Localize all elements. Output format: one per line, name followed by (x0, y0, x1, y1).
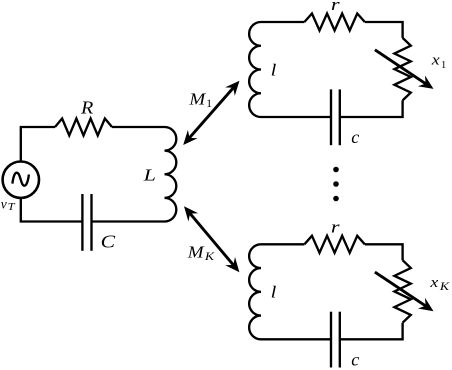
wire top of loop 1 (261, 21, 304, 23)
resistor r (loop K) (304, 236, 364, 253)
secondary loop K: inductor l (249, 244, 261, 339)
svg-text:l: l (271, 283, 277, 302)
label xK (429, 273, 449, 292)
wire bottom of loop K (261, 338, 331, 340)
wire bottom of primary loop (92, 220, 165, 222)
wire top-right of loop K (365, 244, 403, 260)
resistor r (loop 1) (304, 14, 364, 31)
svg-text:c: c (351, 127, 359, 147)
label vT (1, 197, 16, 213)
secondary loop 1: inductor l (249, 22, 261, 117)
variable reactance x1 arrow (375, 50, 434, 89)
capacitor C (82, 194, 91, 251)
wire from R to inductor L (112, 126, 165, 128)
mutual coupling arrow M1 (183, 81, 239, 145)
svg-text:T: T (8, 202, 16, 213)
svg-text:l: l (271, 61, 277, 80)
wire bottom-right of loop K (340, 323, 403, 340)
svg-text:K: K (439, 280, 450, 293)
svg-text:x: x (431, 51, 441, 68)
wire left-bottom segment below source (21, 198, 83, 222)
voltage source sine symbol (12, 173, 29, 186)
svg-text:L: L (142, 166, 155, 185)
svg-text:1: 1 (441, 60, 446, 71)
svg-text:r: r (331, 0, 340, 14)
capacitor c (loop 1) (331, 89, 340, 145)
svg-text:v: v (1, 197, 7, 212)
svg-text:1: 1 (206, 98, 212, 110)
vertical ellipsis dots (333, 167, 339, 202)
svg-text:x: x (429, 273, 439, 290)
resistor R (55, 119, 112, 136)
svg-text:r: r (331, 219, 340, 237)
variable reactance xK zigzag (394, 260, 410, 323)
voltage source vT circle (3, 162, 39, 198)
wire top-right of loop 1 (365, 22, 403, 38)
svg-text:R: R (80, 99, 94, 118)
label MK (187, 243, 215, 263)
capacitor c (loop K) (331, 312, 340, 368)
inductor L (165, 127, 177, 222)
svg-text:c: c (351, 349, 359, 369)
wire bottom-right of loop 1 (340, 100, 403, 117)
svg-text:M: M (188, 90, 206, 109)
variable reactance x1 zigzag (394, 38, 410, 101)
mutual coupling arrow MK (184, 206, 239, 272)
variable reactance xK arrow (375, 272, 434, 311)
wire bottom of loop 1 (261, 116, 331, 118)
svg-text:M: M (187, 243, 205, 262)
wire top-left segment of primary loop (21, 127, 55, 162)
label x1 (431, 51, 447, 71)
wire top of loop K (261, 243, 304, 245)
label M1 (188, 90, 212, 110)
svg-text:K: K (204, 250, 215, 263)
svg-text:C: C (101, 232, 116, 252)
